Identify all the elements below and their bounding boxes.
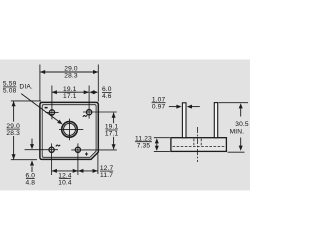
svg-text:DIA.: DIA. (19, 83, 33, 90)
mounting hole (center) (62, 122, 78, 138)
svg-text:30.5: 30.5 (235, 121, 249, 128)
svg-text:28.3: 28.3 (6, 130, 20, 137)
svg-text:0.97: 0.97 (152, 103, 166, 110)
svg-text:17.1: 17.1 (63, 93, 77, 100)
dim 19.1/17.1 top (52, 91, 89, 93)
dim 29.0/28.3 left (11, 100, 41, 102)
polarity mark ~ (bottom left) (56, 145, 60, 147)
dim 6.0/4.6 top right (89, 90, 94, 94)
side view body (171, 138, 227, 152)
gray drawing band (0, 60, 250, 191)
terminal pin top-right (87, 110, 92, 115)
side view left lead (182, 103, 186, 138)
bridge body outline (front view) (40, 102, 98, 159)
side view centerline (197, 127, 199, 162)
polarity mark + (85, 153, 88, 155)
terminal pin bottom-left (49, 147, 54, 152)
svg-text:7.35: 7.35 (137, 142, 151, 149)
dim 19.1/17.1 right (113, 113, 115, 124)
svg-text:4.6: 4.6 (102, 93, 112, 100)
svg-text:28.3: 28.3 (64, 73, 78, 80)
svg-text:11.7: 11.7 (100, 172, 113, 179)
dim 12.7/11.7 bottom right (78, 170, 98, 172)
svg-text:MIN.: MIN. (230, 128, 245, 135)
hidden hole lines (193, 139, 195, 147)
polarity mark ~ (top right) (83, 115, 87, 117)
svg-text:4.8: 4.8 (25, 179, 35, 186)
body inner contour line (42, 105, 96, 158)
leader line for hole dia (21, 94, 60, 123)
svg-text:17.1: 17.1 (105, 131, 119, 138)
dim 29.0/28.3 top (39, 65, 41, 102)
terminal pin top-left (49, 110, 54, 115)
dim 6.0/4.8 bottom left (31, 139, 33, 145)
svg-text:5.08: 5.08 (3, 88, 17, 95)
hole centerlines (59, 128, 83, 130)
dim 30.5 MIN lead length (219, 102, 248, 104)
side view right lead (214, 103, 217, 138)
terminal pin bottom-right (+) (75, 147, 80, 152)
svg-text:10.4: 10.4 (58, 179, 72, 186)
polarity mark minus (45, 107, 48, 109)
dim 12.4/10.4 bottom (52, 170, 78, 172)
